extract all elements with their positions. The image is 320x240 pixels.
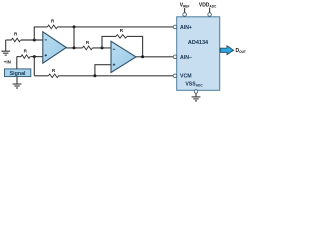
pin VCM: [173, 74, 177, 78]
wire to U1 + input: [30, 56, 43, 58]
wire riser output to AIN+ row: [73, 27, 75, 48]
resistor R (bias to VCM): [49, 74, 59, 78]
svg-text:AIN+: AIN+: [180, 25, 192, 31]
chip AD4134: [177, 17, 220, 91]
pin AIN-: [173, 55, 177, 59]
signal source box: [5, 69, 31, 77]
node U2 inverting input: [101, 46, 104, 49]
wire to U1 - input: [21, 39, 43, 41]
svg-text:DOUT: DOUT: [236, 48, 246, 54]
node VCM tap: [93, 74, 96, 77]
svg-text:R: R: [51, 18, 55, 23]
wire U1 output row: [66, 47, 82, 49]
node AIN+ / feedback junction: [73, 25, 76, 28]
svg-text:VREF: VREF: [180, 3, 190, 9]
node U2 output: [141, 55, 144, 58]
svg-text:AIN−: AIN−: [180, 55, 192, 61]
wire U2 output to AIN-: [136, 56, 175, 58]
wire feedback to output riser: [127, 36, 143, 56]
wire signal box to +IN node: [16, 57, 18, 69]
wire U2 + input from VCM row: [95, 65, 111, 76]
svg-text:AD4134: AD4134: [188, 40, 209, 46]
svg-text:R: R: [52, 68, 56, 73]
ground under chip: [192, 97, 201, 101]
wire ground to R: [6, 39, 12, 41]
ground under signal box: [13, 77, 22, 88]
svg-text:VDDADC: VDDADC: [199, 3, 217, 9]
pin VSS stub: [194, 90, 198, 94]
op-amp U2: [111, 41, 136, 72]
svg-text:Signal: Signal: [10, 71, 26, 77]
wire U2 feedback riser: [102, 36, 116, 48]
svg-text:R: R: [120, 28, 124, 33]
wire VCM row: [34, 75, 48, 77]
resistor R (ground to U1 inverting input): [12, 38, 21, 42]
wire bias riser down to VCM row: [33, 57, 35, 76]
wire AIN+ row: [58, 26, 175, 28]
output arrow DOUT: [220, 46, 233, 55]
wire to U2 - input: [93, 47, 112, 49]
node at U1 + input / bias tap: [33, 55, 36, 58]
svg-text:R: R: [14, 32, 18, 37]
ground left: [1, 40, 10, 55]
svg-text:R: R: [86, 40, 90, 45]
node U1 output: [73, 46, 76, 49]
resistor R (+IN to U1 noninverting input): [21, 55, 30, 59]
wire +IN row: [17, 56, 21, 58]
svg-text:R: R: [24, 49, 28, 54]
resistor R (U2 feedback): [116, 35, 127, 39]
pin VDDADC stub: [209, 8, 211, 13]
pin VREF stub: [184, 8, 186, 13]
svg-text:+IN: +IN: [4, 59, 11, 64]
wire VCM row to chip: [59, 75, 175, 77]
op-amp U1: [43, 32, 67, 63]
node U1 inverting input: [33, 39, 36, 42]
svg-text:VCM: VCM: [180, 74, 192, 80]
resistor R (U1 out to U2 inverting input): [83, 46, 93, 50]
resistor R (U1 feedback): [48, 25, 58, 29]
wire feedback riser U1: [34, 27, 47, 40]
pin AIN+: [173, 25, 177, 29]
